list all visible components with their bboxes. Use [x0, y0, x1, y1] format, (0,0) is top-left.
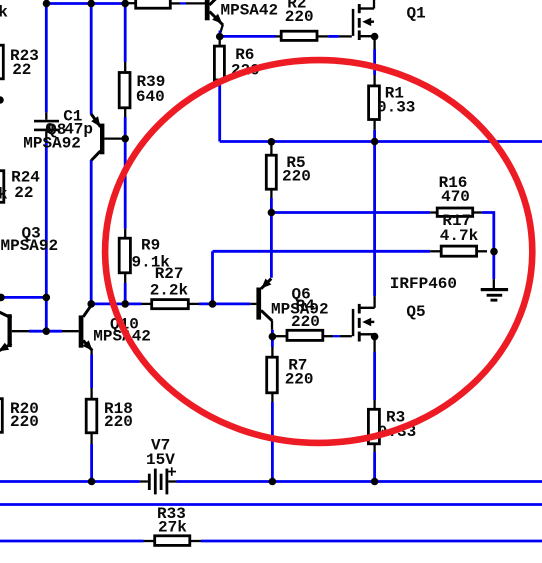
node top rail dot 1	[43, 0, 51, 7]
transistor Q10 MPSA42	[79, 305, 93, 350]
wire R27 row left	[91, 302, 141, 305]
wire battery right lead	[168, 480, 176, 482]
wire R2 left lead	[276, 35, 281, 37]
resistor R39 640	[119, 73, 130, 108]
wire R18 bottom lead	[90, 434, 92, 444]
wire R7 bottom	[271, 402, 274, 482]
wire R6 down	[218, 81, 221, 141]
svg-text:22: 22	[14, 184, 33, 202]
wire R16 left lead	[430, 211, 436, 213]
transistor Q5 MOSFET IRFP460	[352, 304, 375, 342]
wire R18 bottom	[90, 444, 93, 482]
wire R1 top blue	[373, 49, 376, 75]
node R1 bottom	[371, 138, 379, 146]
node x46 base wire	[43, 327, 51, 335]
node top rail dot 2	[87, 0, 95, 7]
svg-text:0.33: 0.33	[377, 99, 415, 117]
svg-text:Q1: Q1	[407, 4, 426, 22]
wire R16 right corner	[482, 213, 494, 252]
wire R3 bottom lead	[373, 445, 375, 452]
wire node to R7	[271, 339, 274, 348]
wire Q10 emitter to R18	[90, 355, 93, 389]
wire Q6 base lead	[250, 303, 256, 305]
node R9 bottom	[121, 300, 129, 308]
battery V7 15V	[148, 467, 176, 494]
wire rail y=541 right	[201, 540, 542, 543]
wire rail y=541 left	[0, 540, 144, 543]
svg-text:220: 220	[285, 8, 314, 26]
node R5 top	[268, 138, 276, 146]
wire top resistor right lead blue bit	[180, 2, 186, 4]
wire R16 right lead	[474, 211, 482, 213]
node left edge dot R23	[0, 96, 4, 104]
wire rail y=504.5	[0, 503, 542, 506]
wire ground stem black	[493, 279, 495, 288]
svg-text:220: 220	[104, 413, 133, 431]
wire Q6 to node	[271, 330, 274, 335]
wire R2 row left blue	[221, 35, 276, 38]
svg-text:R9: R9	[141, 237, 160, 255]
wire top resistor right lead	[172, 2, 181, 4]
wire R33 left lead	[144, 540, 154, 542]
wire R4 right lead blue bit	[333, 335, 340, 337]
resistor R1 0.33	[369, 86, 380, 120]
wire R1 top lead	[373, 38, 375, 49]
wire base wire left part	[12, 330, 29, 332]
node Q8 base	[121, 135, 129, 143]
wire R7 top lead	[271, 347, 273, 356]
resistor R5 220	[266, 155, 276, 189]
wire top rail y=3.5	[46, 2, 127, 5]
wire column x=46.3 upper	[45, 4, 48, 113]
resistor R24 22 partial	[0, 171, 4, 203]
wire base wire right part	[62, 330, 79, 332]
resistor R3 0.33	[368, 409, 379, 444]
wire column x=91.2 upper	[90, 4, 93, 115]
wire Q5 drain up	[373, 296, 375, 308]
resistor R6 220	[214, 46, 224, 80]
wire R1 bottom	[373, 130, 376, 142]
svg-text:R27: R27	[155, 265, 184, 283]
resistor R33 27k	[155, 536, 190, 546]
node Q7 emitter R6	[216, 33, 224, 41]
node Q1 source R1	[371, 33, 379, 41]
node R3 bottom rail	[371, 478, 379, 486]
svg-text:MPSA42: MPSA42	[221, 1, 279, 19]
svg-text:220: 220	[282, 168, 311, 186]
svg-text:k: k	[0, 4, 8, 22]
wire R5 bottom lead	[270, 190, 272, 198]
resistor R18 220	[86, 399, 97, 433]
svg-text:15V: 15V	[146, 451, 175, 469]
wire ground stem blue	[492, 251, 495, 279]
node Q5 source	[371, 333, 379, 341]
wire R4 left lead	[276, 335, 286, 337]
wire column x=212.5	[211, 251, 214, 304]
wire Q8 base lead	[104, 137, 122, 139]
node R18 bottom rail	[88, 478, 96, 486]
wire Q5 source down	[373, 338, 375, 352]
transistor Q8 MPSA92	[91, 114, 104, 161]
svg-text:MPSA92: MPSA92	[23, 135, 81, 153]
wire R27 left lead	[142, 303, 151, 305]
svg-text:k: k	[0, 186, 8, 204]
svg-text:220: 220	[291, 313, 320, 331]
wire top resistor left lead	[125, 2, 134, 4]
svg-text:MPSA92: MPSA92	[1, 237, 59, 255]
wire R4 right lead	[324, 335, 333, 337]
wire supply rail y=481.5 left	[0, 480, 140, 483]
wire Q5 gate lead	[340, 335, 352, 337]
wire R5 to R16 y=212.5	[271, 211, 430, 214]
resistor R17 4.7k	[441, 246, 476, 256]
annotation red ellipse	[105, 60, 532, 443]
node R27 right	[209, 300, 217, 308]
svg-text:IRFP460: IRFP460	[390, 275, 457, 293]
svg-text:640: 640	[136, 88, 165, 106]
wire R1 node to Q5 drain	[373, 142, 376, 297]
node R7 bottom rail	[269, 478, 277, 486]
wire column x=46.3 lower	[45, 140, 48, 331]
transistor Q7 MPSA42 top	[205, 0, 223, 25]
wire C1 top lead	[45, 112, 47, 119]
transistor Q6 MPSA92	[256, 279, 272, 321]
wire rail y=141.5	[220, 140, 542, 143]
wire R1 bottom lead	[373, 121, 375, 130]
node x46 y297	[43, 294, 51, 302]
wire Q1 gate lead	[339, 35, 352, 37]
wire column x=91.2 mid	[90, 160, 93, 304]
resistor R7 220	[267, 357, 278, 393]
wire R27 row right	[199, 302, 250, 305]
node R17 right	[490, 248, 498, 256]
resistor R2 220	[281, 31, 317, 40]
wire column x=125.2 top	[124, 4, 127, 63]
node left edge y297	[0, 294, 5, 302]
wire base wire blue part	[29, 330, 62, 333]
wire Q7 emitter to R6 node	[220, 25, 223, 35]
resistor R23 22 partial	[0, 45, 3, 79]
wire R18 top lead	[90, 388, 92, 398]
wire C1 bottom lead	[45, 131, 47, 140]
resistor R4 220	[287, 330, 323, 340]
wire R3 top lead	[373, 400, 375, 408]
wire R2 to Q1 gate blue part	[328, 35, 339, 38]
wire R39 bottom lead	[124, 109, 126, 117]
capacitor C1 0.47p	[34, 120, 59, 131]
wire R9 bottom lead	[124, 274, 126, 283]
wire R17 left lead	[430, 250, 440, 252]
wire R27 right lead	[190, 303, 200, 305]
wire Q1 drain up	[373, 0, 375, 9]
wire R17 right lead	[478, 250, 487, 252]
resistor R20 220 partial	[0, 399, 2, 433]
transistor Q3 MPSA92 left edge	[0, 312, 12, 352]
svg-text:2.2k: 2.2k	[150, 281, 189, 299]
wire R5 bottom	[270, 198, 273, 278]
wire R3 bottom	[373, 452, 376, 482]
svg-text:22: 22	[12, 61, 31, 79]
resistor R22 top partial	[136, 0, 171, 8]
resistor R16 470	[437, 208, 473, 216]
svg-text:Q5: Q5	[406, 303, 425, 321]
wire R6 top lead	[219, 37, 221, 45]
wire R9 to row	[124, 283, 127, 304]
node Q10 collector	[87, 300, 95, 308]
wire R5 top lead	[270, 143, 272, 154]
wire Q10 emitter down	[90, 350, 92, 355]
wire battery left lead	[140, 480, 148, 482]
wire R9 top lead	[124, 229, 126, 237]
transistor Q1 MOSFET top	[352, 4, 375, 40]
svg-text:470: 470	[441, 188, 470, 206]
wire R39 top lead	[124, 62, 126, 71]
wire Q6 collector down	[271, 320, 273, 329]
svg-text:27k: 27k	[158, 519, 187, 537]
wire Q5 source down	[373, 352, 376, 400]
node Q6 collector R4 R7	[269, 333, 277, 341]
ground	[481, 288, 508, 302]
wire to R17 y=251.3	[213, 250, 431, 253]
svg-text:4.7k: 4.7k	[440, 227, 479, 245]
resistor R9 9.1k	[119, 238, 130, 273]
node top rail dot 3	[121, 0, 129, 7]
wire R33 right lead	[191, 540, 201, 542]
svg-text:220: 220	[10, 413, 39, 431]
node R5 bottom	[268, 209, 276, 217]
wire R7 bottom lead	[271, 394, 273, 402]
svg-text:220: 220	[285, 371, 314, 389]
wire supply rail y=481.5 right	[177, 480, 542, 483]
wire R39 to R9	[124, 117, 127, 229]
wire left stub y=297.4	[0, 296, 46, 299]
resistor R27 2.2k	[152, 300, 189, 309]
wire R2 right lead	[318, 35, 328, 37]
